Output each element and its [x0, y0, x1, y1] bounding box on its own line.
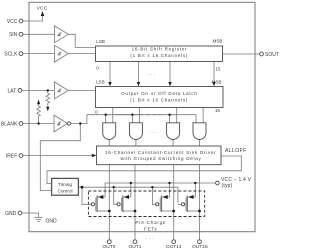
svg-text:VCC − 1.4 V: VCC − 1.4 V — [221, 177, 252, 183]
svg-text:OUT14: OUT14 — [166, 244, 182, 250]
svg-text:LAT: LAT — [7, 88, 16, 94]
svg-text:OUT1: OUT1 — [128, 244, 141, 250]
svg-text:FETs: FETs — [144, 226, 157, 231]
svg-text:(1 Bit x 16 Channels): (1 Bit x 16 Channels) — [130, 97, 188, 102]
svg-text:VCC: VCC — [7, 19, 18, 25]
svg-text:GND: GND — [46, 219, 58, 225]
svg-text:15: 15 — [215, 108, 221, 113]
svg-text:VCC: VCC — [37, 6, 48, 12]
svg-text:SCLK: SCLK — [4, 52, 18, 58]
svg-text:(typ): (typ) — [222, 183, 233, 189]
svg-text:16-Bit Shift Register: 16-Bit Shift Register — [132, 47, 188, 52]
svg-text:Output On or Off Data Latch: Output On or Off Data Latch — [121, 91, 197, 96]
svg-text:with Grouped Switching Delay: with Grouped Switching Delay — [120, 156, 201, 161]
svg-text:LSB: LSB — [96, 39, 105, 44]
svg-text:(1 Bit x 16 Channels): (1 Bit x 16 Channels) — [130, 53, 188, 58]
svg-text:MSB: MSB — [212, 79, 222, 84]
svg-text:15: 15 — [215, 67, 221, 72]
svg-text:IREF: IREF — [6, 153, 17, 159]
svg-text:. . .: . . . — [150, 129, 156, 134]
svg-text:. . .: . . . — [146, 236, 153, 241]
svg-text:SIN: SIN — [9, 32, 18, 38]
svg-text:0: 0 — [96, 65, 99, 70]
svg-text:GND: GND — [5, 211, 17, 217]
svg-text:. . .: . . . — [149, 71, 155, 76]
svg-text:16-Channel Constant-Current Si: 16-Channel Constant-Current Sink Driver — [105, 150, 217, 155]
svg-text:Control: Control — [57, 188, 72, 193]
svg-text:MSB: MSB — [213, 38, 223, 43]
svg-text:Pre-Charge: Pre-Charge — [135, 220, 166, 225]
svg-text:OUT15: OUT15 — [192, 244, 208, 250]
svg-text:BLANK: BLANK — [1, 121, 18, 127]
svg-text:ALLOFF: ALLOFF — [225, 148, 247, 154]
svg-text:Timing: Timing — [58, 182, 72, 187]
svg-text:0: 0 — [95, 109, 98, 114]
svg-text:SOUT: SOUT — [265, 52, 279, 58]
svg-text:OUT0: OUT0 — [102, 244, 115, 250]
svg-text:LSB: LSB — [96, 79, 105, 84]
